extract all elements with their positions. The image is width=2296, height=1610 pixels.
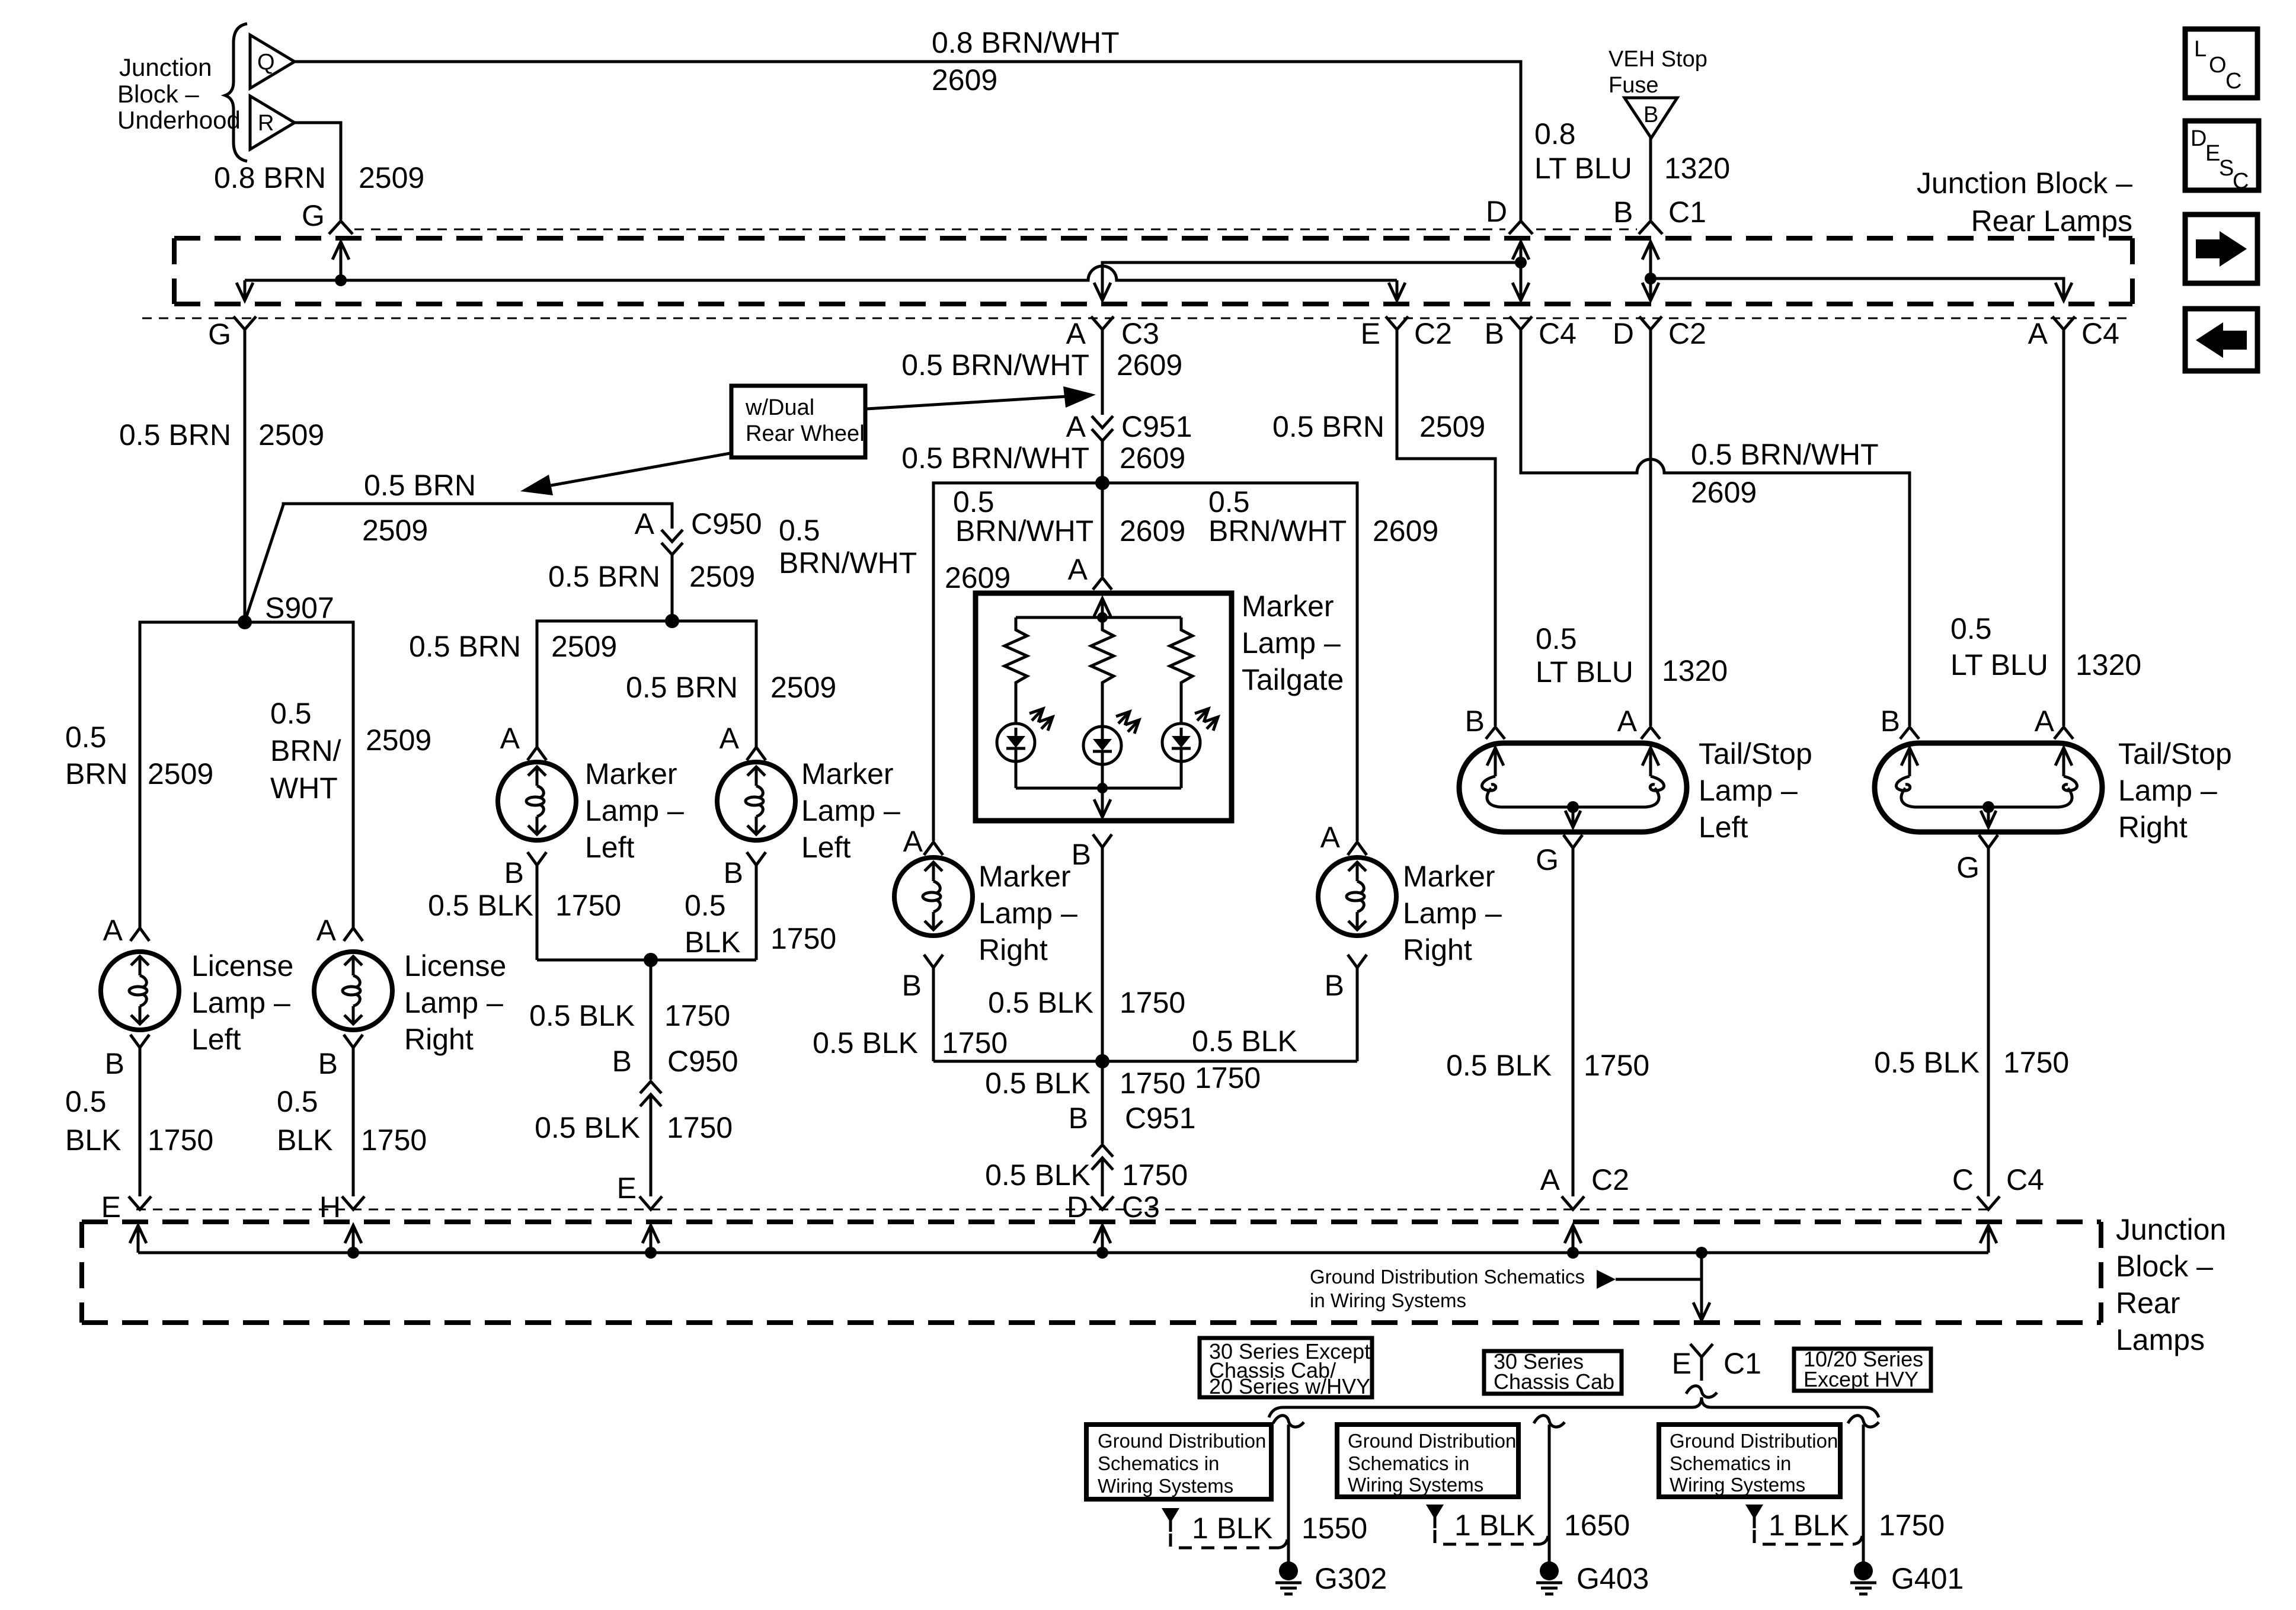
version box 10/20 series [1794, 1347, 1931, 1391]
svg-text:E: E [617, 1172, 637, 1205]
svg-text:C3: C3 [1122, 1190, 1160, 1224]
ground distribution box 2 [1337, 1425, 1518, 1497]
svg-text:1750: 1750 [667, 1111, 733, 1144]
svg-text:Wiring Systems: Wiring Systems [1098, 1475, 1233, 1497]
wire A C3 down to C951 [1101, 329, 1104, 415]
label 0.5 BRN/WHT 2509 (license right) [270, 697, 431, 805]
svg-text:Junction: Junction [2116, 1213, 2226, 1246]
svg-text:1750: 1750 [1122, 1158, 1188, 1192]
svg-text:Schematics in: Schematics in [1098, 1452, 1219, 1474]
tailgate interior entry arrow [1094, 598, 1111, 617]
terminal B license left [105, 1035, 149, 1196]
svg-text:E: E [101, 1190, 121, 1224]
svg-text:LT BLU: LT BLU [1534, 152, 1632, 185]
entry chevron C C4 [1977, 1196, 2000, 1209]
svg-text:0.5: 0.5 [953, 485, 994, 518]
svg-text:BRN/WHT: BRN/WHT [779, 546, 917, 580]
svg-text:Rear Lamps: Rear Lamps [1971, 204, 2132, 238]
ground distribution box 3 [1659, 1425, 1840, 1497]
wire C950 B to E [650, 1094, 653, 1196]
tail stop lamp right body [1875, 743, 2102, 832]
svg-text:Tail/Stop: Tail/Stop [1699, 737, 1812, 770]
svg-text:C3: C3 [1121, 317, 1159, 350]
svg-text:2609: 2609 [1120, 441, 1185, 475]
terminal B marker right 1 [902, 955, 943, 1061]
marker lamp tailgate label [1242, 590, 1344, 696]
splice squiggle E C1 [1686, 1386, 1717, 1397]
exit chevron E C1 [1690, 1344, 1713, 1381]
svg-text:0.5 BLK: 0.5 BLK [988, 986, 1093, 1019]
svg-text:0.5 BRN: 0.5 BRN [1272, 410, 1384, 443]
top box interior bus from D to A C3 [1094, 263, 1521, 300]
connector Q [250, 35, 295, 88]
svg-text:Left: Left [801, 831, 851, 864]
terminal labels D C3 [1067, 1190, 1160, 1224]
terminal A tail stop right [2035, 705, 2073, 739]
svg-text:1650: 1650 [1564, 1509, 1630, 1542]
svg-text:Junction Block –: Junction Block – [1917, 167, 2132, 200]
wire E C2 to tail stop left B [1397, 329, 1495, 726]
marker lamp left 1 label [585, 757, 684, 864]
labels A C950 [635, 507, 762, 540]
wire 0.8 BRN/WHT from Q to D [295, 62, 1521, 221]
svg-text:D: D [1613, 317, 1634, 350]
svg-text:Junction: Junction [119, 53, 212, 81]
label 0.5 BLK 1750 (marker left 2) [685, 889, 836, 959]
svg-text:C: C [2233, 169, 2249, 194]
junction dot G bus [335, 274, 347, 286]
svg-text:2609: 2609 [932, 63, 997, 97]
label 0.5 BLK 1750 (below C950 B) [535, 1111, 733, 1144]
svg-text:G403: G403 [1576, 1562, 1649, 1595]
wire marker left B join [537, 959, 756, 962]
svg-text:2509: 2509 [148, 757, 213, 790]
junction dot C1 bus [1645, 273, 1657, 284]
marker lamp left 1 bulb [498, 762, 576, 840]
junction block rear lamps title (bottom) [2116, 1213, 2226, 1356]
svg-text:0.5: 0.5 [779, 514, 820, 547]
terminal B tail stop right [1881, 705, 1919, 739]
svg-text:0.8: 0.8 [1534, 117, 1576, 151]
svg-text:Left: Left [191, 1023, 241, 1056]
svg-text:B: B [318, 1047, 338, 1080]
exit labels A C3 [1066, 317, 1159, 350]
connector R [250, 96, 295, 149]
svg-text:1 BLK: 1 BLK [1192, 1512, 1272, 1545]
tail stop lamp left body [1459, 743, 1687, 832]
svg-text:Left: Left [1699, 811, 1748, 844]
wire splice to tailgate lamp entry [1101, 483, 1104, 577]
wire 0.8 BRN from R to G [295, 123, 341, 220]
bottom box arrow up H license right [345, 1225, 362, 1253]
svg-text:0.5: 0.5 [1208, 485, 1250, 518]
terminal B license right [318, 1035, 363, 1196]
svg-text:Lamps: Lamps [2116, 1323, 2205, 1356]
labels B C950 [612, 1045, 738, 1078]
svg-text:Block –: Block – [117, 80, 199, 108]
label 0.5 BRN 2509 (marker left 1) [409, 630, 617, 663]
svg-text:Except HVY: Except HVY [1803, 1367, 1918, 1391]
svg-text:0.8 BRN: 0.8 BRN [214, 161, 326, 194]
svg-text:LT BLU: LT BLU [1536, 655, 1633, 689]
label 0.8 BRN/WHT 2609 [932, 26, 1120, 97]
label 0.5 LT BLU 1320 (A C4 wire) [1950, 612, 2141, 681]
svg-text:0.5 BLK: 0.5 BLK [1192, 1025, 1297, 1058]
svg-text:1750: 1750 [1120, 986, 1185, 1019]
svg-text:0.5 BLK: 0.5 BLK [985, 1158, 1091, 1192]
svg-text:0.5: 0.5 [1536, 622, 1577, 655]
svg-text:Q: Q [257, 50, 275, 75]
top box interior arrow up at C1 entry [1642, 242, 1659, 279]
svg-text:C2: C2 [1414, 317, 1452, 350]
exit chevron D C2 [1639, 316, 1662, 329]
wire S907 to license lamps [140, 622, 353, 928]
svg-text:1 BLK: 1 BLK [1454, 1509, 1535, 1542]
svg-text:B: B [612, 1045, 632, 1078]
svg-text:B: B [1325, 969, 1344, 1002]
svg-text:A: A [720, 722, 740, 755]
svg-text:G: G [208, 318, 231, 351]
junction dot bus D C3 [1096, 1247, 1108, 1259]
svg-text:0.5 BRN: 0.5 BRN [409, 630, 521, 663]
svg-text:BRN/: BRN/ [270, 734, 341, 767]
ground distribution pointer note [1310, 1266, 1702, 1311]
junction block underhood label [117, 53, 241, 134]
entry chevron G [329, 221, 353, 234]
svg-text:w/Dual: w/Dual [745, 395, 814, 420]
svg-text:Lamp –: Lamp – [1242, 626, 1341, 660]
entry chevron D C3 [1091, 1196, 1114, 1209]
svg-text:BLK: BLK [277, 1124, 333, 1157]
svg-text:Right: Right [978, 933, 1048, 966]
svg-text:Schematics in: Schematics in [1670, 1452, 1791, 1474]
marker lamp right 1 bulb [894, 857, 973, 936]
svg-text:2509: 2509 [258, 418, 324, 452]
tailgate interior bottom bus [1016, 787, 1181, 790]
svg-text:Right: Right [404, 1023, 474, 1056]
svg-text:E: E [1361, 317, 1380, 350]
svg-text:A: A [1617, 705, 1638, 738]
svg-text:A: A [903, 825, 923, 858]
svg-text:B: B [1643, 103, 1658, 127]
label 0.5 BRN/WHT 2609 (loop right) [1208, 485, 1438, 548]
svg-text:0.5 BRN/WHT: 0.5 BRN/WHT [1691, 438, 1879, 471]
svg-text:Right: Right [1403, 933, 1472, 966]
bottom box arrow up D C3 [1094, 1225, 1111, 1253]
version box 30 series except [1200, 1338, 1372, 1398]
label 0.5 BRN/WHT 2609 (center) [953, 485, 1185, 548]
svg-text:1750: 1750 [1879, 1509, 1945, 1542]
wire join to C951 B [1101, 1061, 1104, 1144]
svg-text:E: E [2205, 141, 2220, 166]
entry chevron E (C950 return) [639, 1196, 662, 1209]
label 0.5 BLK 1750 (above C951 B) [985, 1067, 1185, 1100]
junction dot tailgate top [1097, 612, 1108, 623]
svg-text:0.5 BLK: 0.5 BLK [529, 999, 635, 1032]
svg-text:BRN/WHT: BRN/WHT [1208, 514, 1347, 548]
svg-text:C2: C2 [1668, 317, 1706, 350]
svg-text:License: License [191, 949, 293, 982]
svg-text:D: D [2191, 126, 2207, 151]
exit labels E C2 [1361, 317, 1452, 350]
label 1 BLK 1650 [1454, 1509, 1630, 1542]
svg-text:0.5: 0.5 [685, 889, 726, 922]
svg-text:1320: 1320 [2076, 648, 2141, 681]
wire ground tap down with arrow [1693, 1253, 1710, 1320]
svg-text:B: B [105, 1047, 124, 1080]
marker lamp left 2 bulb [717, 762, 795, 840]
exit labels A C4 [2028, 317, 2119, 350]
svg-text:1750: 1750 [1584, 1049, 1649, 1082]
svg-text:Lamp –: Lamp – [585, 794, 684, 827]
svg-text:2509: 2509 [362, 514, 428, 547]
svg-text:Ground Distribution: Ground Distribution [1098, 1430, 1266, 1452]
svg-text:1320: 1320 [1664, 152, 1730, 185]
terminal A tail stop left [1617, 705, 1660, 739]
junction dot D bus [1515, 257, 1527, 268]
label 0.8 BRN 2509 [214, 161, 424, 194]
label 0.5 BLK 1750 (tailgate B wire) [988, 986, 1185, 1019]
wire fuse to C1 [1649, 138, 1652, 220]
tailgate interior exit arrow [1094, 788, 1111, 817]
svg-text:Left: Left [585, 831, 635, 864]
label 0.5 BLK 1750 (tail stop left ground) [1446, 1049, 1649, 1082]
entry chevron H (license right) [342, 1196, 364, 1209]
svg-text:Lamp –: Lamp – [404, 986, 503, 1019]
svg-text:C950: C950 [691, 507, 762, 540]
terminal G tail stop left [1536, 835, 1582, 1196]
svg-text:G: G [1536, 843, 1559, 876]
junction dot bus E [645, 1247, 657, 1259]
wire marker left pair feed [537, 621, 756, 747]
resistor tailgate 1 [1005, 617, 1027, 724]
svg-text:Lamp –: Lamp – [1699, 774, 1798, 807]
ground G401 [1850, 1561, 1964, 1595]
license lamp right label [404, 949, 506, 1056]
version box 30 series chassis cab [1484, 1349, 1622, 1394]
svg-text:Ground Distribution Schematics: Ground Distribution Schematics [1310, 1266, 1585, 1288]
svg-text:C: C [1952, 1163, 1974, 1196]
svg-text:B: B [902, 969, 922, 1002]
thin dashed connector line above top junction box [354, 229, 1637, 231]
terminal A license left [103, 914, 149, 947]
tailgate interior top bus [1016, 616, 1181, 619]
labels B C951 [1069, 1102, 1196, 1135]
svg-text:Rear Wheel: Rear Wheel [746, 421, 865, 446]
exit chevron A C3 [1091, 316, 1114, 329]
entry chevron E (license left) [129, 1196, 151, 1209]
ground G302 [1275, 1561, 1387, 1595]
svg-text:0.5: 0.5 [270, 697, 312, 730]
svg-text:G: G [1956, 851, 1980, 884]
wire to G401 [1862, 1425, 1865, 1562]
svg-text:LT BLU: LT BLU [1950, 648, 2048, 681]
svg-text:2509: 2509 [689, 560, 755, 593]
svg-text:1750: 1750 [942, 1026, 1008, 1060]
resistor tailgate 2 [1091, 617, 1114, 728]
connector C951 A chevrons [1092, 416, 1113, 441]
junction dot tailgate bottom [1097, 783, 1108, 793]
svg-text:Lamp –: Lamp – [2118, 774, 2217, 807]
LED tailgate 3 [1162, 709, 1218, 788]
svg-text:0.5 BRN: 0.5 BRN [548, 560, 660, 593]
svg-text:B: B [1485, 317, 1504, 350]
LED tailgate 1 [997, 709, 1053, 788]
svg-text:1550: 1550 [1302, 1512, 1367, 1545]
svg-text:1750: 1750 [361, 1124, 427, 1157]
svg-text:A: A [2028, 317, 2048, 350]
svg-text:A: A [1066, 317, 1086, 350]
svg-text:S907: S907 [265, 591, 334, 625]
svg-text:C: C [2225, 69, 2241, 94]
svg-text:0.5: 0.5 [65, 1085, 107, 1118]
svg-text:Marker: Marker [585, 757, 677, 790]
terminal B tail stop left [1465, 705, 1505, 739]
exit chevron G [234, 316, 256, 329]
svg-text:Lamp –: Lamp – [978, 897, 1077, 930]
junction dot tailgate splice [1095, 476, 1109, 490]
terminal labels C C4 [1952, 1163, 2044, 1196]
terminal B marker left 2 [724, 852, 766, 960]
label 0.5 BLK 1750 (license left) [65, 1085, 213, 1157]
label 0.5 BLK 1750 (above C950 B) [529, 999, 730, 1032]
svg-text:0.5 BRN: 0.5 BRN [119, 418, 231, 452]
svg-text:2509: 2509 [551, 630, 617, 663]
label 0.5 BLK 1750 (marker right 2 ground) [1192, 1025, 1297, 1094]
svg-text:Wiring Systems: Wiring Systems [1348, 1474, 1483, 1496]
svg-text:E: E [1672, 1347, 1691, 1380]
DESC legend box [2185, 121, 2259, 194]
terminal A marker right 2 [1320, 821, 1367, 855]
terminal A tailgate [1068, 553, 1112, 590]
svg-text:O: O [2209, 53, 2227, 78]
marker lamp left 2 label [801, 757, 900, 864]
terminal B marker left 1 [504, 852, 546, 960]
label 0.5 BRN/WHT 2609 (loop left) [779, 514, 1011, 594]
label 0.5 BLK 1750 (marker right 1 ground) [813, 1026, 1008, 1060]
svg-text:20 Series w/HVY: 20 Series w/HVY [1209, 1374, 1370, 1398]
VEH Stop Fuse label [1609, 47, 1707, 98]
terminal labels A C2 [1540, 1163, 1629, 1196]
license lamp right bulb [314, 952, 392, 1030]
label 0.5 BLK 1750 (below C951 B) [985, 1158, 1188, 1192]
svg-text:0.5 BRN/WHT: 0.5 BRN/WHT [901, 441, 1089, 475]
label 1 BLK 1750 [1769, 1509, 1945, 1542]
labels A C951 [1066, 410, 1192, 443]
exit labels D C2 [1613, 317, 1706, 350]
svg-text:0.5 BRN/WHT: 0.5 BRN/WHT [901, 348, 1089, 382]
wire A C4 to tail stop right A [2062, 329, 2065, 726]
label 0.8 LT BLU 1320 [1534, 117, 1730, 185]
svg-text:A: A [1320, 821, 1341, 854]
svg-text:0.5 BLK: 0.5 BLK [428, 889, 533, 922]
svg-text:C951: C951 [1121, 410, 1192, 443]
svg-text:1 BLK: 1 BLK [1769, 1509, 1849, 1542]
svg-text:2609: 2609 [1691, 476, 1757, 509]
svg-text:2609: 2609 [1373, 514, 1438, 548]
svg-text:A: A [2035, 705, 2055, 738]
wire 0.5 BRN branch to C950 A [245, 504, 672, 620]
svg-text:C4: C4 [1539, 317, 1576, 350]
connector C950 B chevrons [640, 1081, 661, 1106]
svg-text:A: A [1066, 410, 1086, 443]
entry chevron D [1509, 221, 1533, 234]
label 0.5 BRN/WHT 2609 (C3 wire) [901, 348, 1182, 382]
thin dashed connector line below top junction box [142, 318, 2131, 319]
svg-text:A: A [1540, 1163, 1560, 1196]
svg-text:D: D [1486, 195, 1507, 228]
svg-text:Rear: Rear [2116, 1286, 2180, 1320]
svg-text:2509: 2509 [1419, 410, 1485, 443]
svg-text:2609: 2609 [1117, 348, 1182, 382]
label 1 BLK 1550 [1192, 1512, 1367, 1545]
svg-text:0.5 BLK: 0.5 BLK [985, 1067, 1091, 1100]
svg-text:C4: C4 [2006, 1163, 2044, 1196]
label 0.5 BLK 1750 (marker left 1) [428, 889, 621, 922]
wire join to C950 B [650, 960, 653, 1080]
distribution brace [1269, 1397, 1879, 1417]
svg-text:Fuse: Fuse [1609, 73, 1658, 98]
svg-text:C950: C950 [667, 1045, 738, 1078]
label 0.5 BRN 2509 (below C950) [548, 560, 755, 593]
callout arrow to C3 wire [866, 396, 1067, 409]
svg-text:0.5 BLK: 0.5 BLK [535, 1111, 640, 1144]
svg-text:Marker: Marker [1242, 590, 1334, 623]
junction dot C950 split [665, 614, 679, 628]
svg-text:B: B [1072, 838, 1091, 871]
exit chevron B C4 [1510, 316, 1532, 329]
LED tailgate 2 [1083, 712, 1139, 796]
svg-text:BRN: BRN [65, 757, 128, 790]
svg-text:G302: G302 [1315, 1562, 1387, 1595]
svg-text:in Wiring Systems: in Wiring Systems [1310, 1289, 1466, 1311]
svg-text:1750: 1750 [1120, 1067, 1185, 1100]
top box interior wire C1 to D C2 exit arrow [1642, 279, 1659, 300]
svg-text:1320: 1320 [1662, 654, 1728, 687]
svg-text:2509: 2509 [366, 724, 431, 757]
svg-text:Ground Distribution: Ground Distribution [1670, 1430, 1838, 1452]
svg-text:0.5: 0.5 [65, 721, 107, 754]
svg-text:S: S [2219, 156, 2234, 181]
wire C951 A to tailgate splice [1101, 441, 1104, 483]
marker lamp tailgate box [976, 593, 1232, 821]
tail stop lamp right label [2118, 737, 2232, 844]
svg-text:B: B [1881, 705, 1900, 738]
label 0.5 BRN 2509 (E C2 wire) [1272, 410, 1485, 443]
terminal A marker left 1 [500, 722, 546, 760]
svg-text:R: R [258, 111, 274, 136]
exit labels B C4 [1485, 317, 1576, 350]
svg-text:C2: C2 [1591, 1163, 1629, 1196]
exit chevron A C4 [2052, 316, 2075, 329]
label 0.5 BLK 1750 (tail stop right ground) [1874, 1046, 2069, 1079]
svg-text:License: License [404, 949, 506, 982]
marker lamp right 2 bulb [1318, 857, 1396, 936]
bottom box arrow up A C2 [1565, 1225, 1581, 1253]
top box interior bus from C1 to A C4 [1651, 279, 2072, 300]
branch squiggle G302 [1273, 1416, 1304, 1427]
svg-text:H: H [319, 1190, 341, 1224]
svg-text:G: G [302, 199, 325, 232]
junction dot bus A C2 [1567, 1247, 1579, 1259]
junction dot bus H [347, 1247, 359, 1259]
svg-text:1750: 1750 [1195, 1061, 1261, 1094]
bottom box arrow up E C950 [642, 1225, 659, 1253]
terminal B marker right 2 [1325, 955, 1367, 1061]
ground G403 [1536, 1561, 1649, 1595]
svg-text:0.8 BRN/WHT: 0.8 BRN/WHT [932, 26, 1120, 59]
svg-text:A: A [635, 507, 655, 540]
